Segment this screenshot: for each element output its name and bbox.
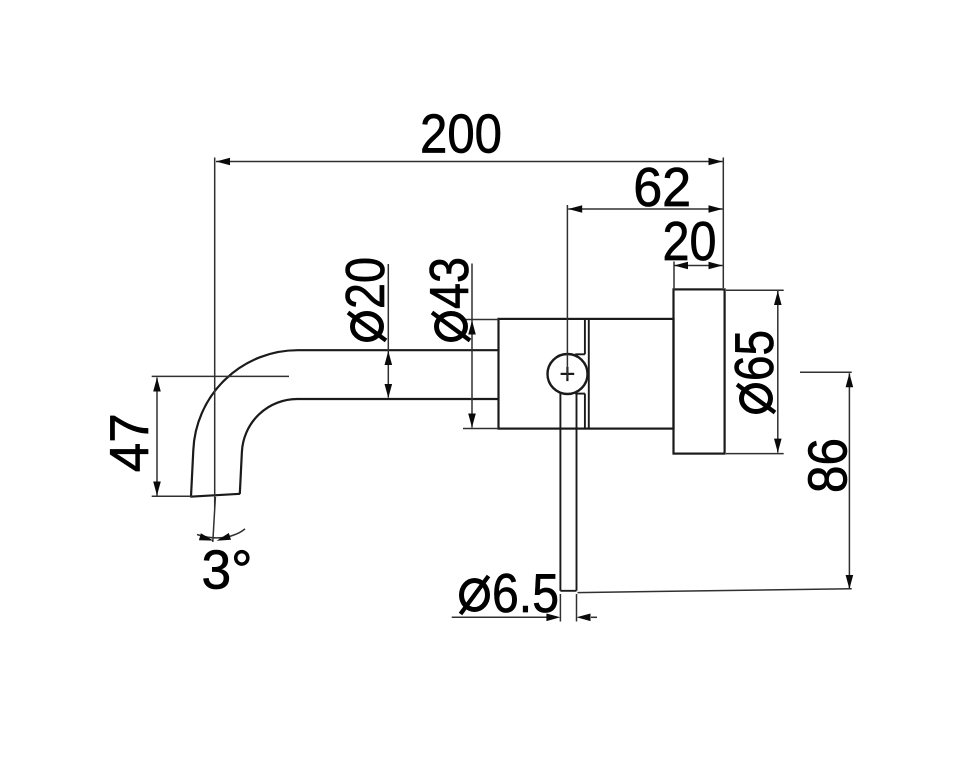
svg-text:43: 43 [418,257,480,309]
svg-text:62: 62 [633,156,691,218]
svg-text:200: 200 [420,103,502,165]
svg-text:86: 86 [797,438,859,493]
svg-text:65: 65 [723,330,785,381]
svg-text:6.5: 6.5 [492,562,559,624]
svg-text:47: 47 [98,413,160,472]
svg-text:3°: 3° [202,539,253,601]
svg-text:20: 20 [663,210,717,272]
svg-text:20: 20 [334,257,396,309]
